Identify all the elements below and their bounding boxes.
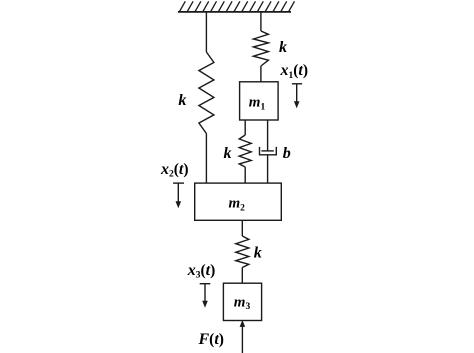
wire m1 to damper rod	[267, 120, 269, 151]
wire ceiling to top spring	[260, 12, 262, 31]
fixed ceiling support	[178, 1, 295, 12]
mass m2	[195, 183, 282, 220]
svg-text:x1(t): x1(t)	[280, 62, 309, 81]
spring k left (ceiling to m2)	[199, 52, 214, 134]
svg-text:x2(t): x2(t)	[160, 161, 189, 180]
wire middle spring to m2	[244, 167, 246, 183]
mass m1	[240, 82, 279, 120]
arrow F upward into m3	[240, 320, 246, 353]
svg-text:k: k	[279, 39, 287, 56]
mass m3	[223, 283, 261, 320]
svg-text:k: k	[178, 92, 186, 109]
svg-text:k: k	[254, 245, 262, 262]
svg-text:k: k	[224, 145, 232, 162]
damper b (m1 to m2)	[260, 147, 277, 155]
wire m2 to bottom spring	[241, 220, 243, 236]
spring k bottom (m2 to m3)	[236, 236, 249, 268]
spring k top (ceiling to m1)	[253, 31, 268, 66]
wire top spring to m1	[260, 66, 262, 82]
wire m1 to middle spring	[244, 120, 246, 135]
svg-text:F(t): F(t)	[198, 331, 224, 348]
arrow x1 downward	[292, 84, 302, 108]
wire damper to m2	[267, 155, 269, 183]
spring k middle (m1 to m2)	[239, 135, 251, 167]
arrow x3 downward	[200, 284, 211, 308]
wire ceiling to left spring	[205, 12, 207, 52]
arrow x2 downward	[173, 183, 184, 208]
svg-text:x3(t): x3(t)	[187, 262, 216, 281]
wire left spring to m2	[205, 134, 207, 184]
svg-text:b: b	[283, 145, 291, 162]
wire bottom spring to m3	[241, 268, 243, 284]
